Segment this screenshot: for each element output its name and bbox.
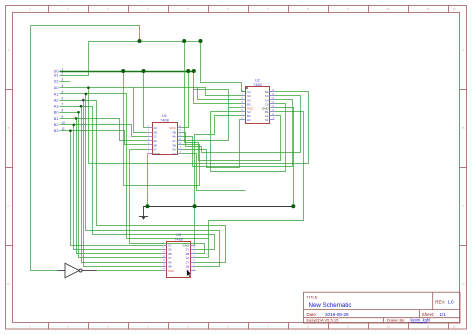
U2 right pin 10 (A1) <box>270 115 275 117</box>
U3 left pin 10 (3B) <box>163 253 167 255</box>
svg-text:Date:: Date: <box>307 312 318 317</box>
U1 left pin 3 (1Y) <box>148 136 153 138</box>
wire S0 tap to U1 VCC <box>182 72 189 128</box>
wire B3 row to U1 pin 2B <box>60 131 148 145</box>
wire U2 pin B1 wrap <box>209 112 304 239</box>
svg-text:kevin_kuhl: kevin_kuhl <box>411 318 431 323</box>
U3 left pin 8 (3Y) <box>163 245 167 247</box>
svg-text:2018-08-28: 2018-08-28 <box>325 312 349 317</box>
wire U1 pin 3A to U2 pin A2 <box>182 120 242 168</box>
U3 left pin 13 (4B) <box>163 266 167 268</box>
U1 left pin 7 (GND) <box>148 153 153 155</box>
U3 left pin 12 (4A) <box>163 262 167 264</box>
wire long left vertical to inverter input <box>31 26 58 271</box>
U3 right pin 3 (1Y) <box>191 262 196 264</box>
svg-text:S1: S1 <box>54 73 59 78</box>
svg-text:A: A <box>462 48 464 52</box>
U2 right pin 14 (C4) <box>270 99 275 101</box>
U1 left pin 4 (2A) <box>148 140 153 142</box>
svg-text:1.0: 1.0 <box>448 300 455 305</box>
junction B3 <box>69 129 72 132</box>
U2 left pin 1 (A4) <box>242 91 246 93</box>
wire S0 tap to U2 pin B3 <box>194 72 242 104</box>
U2 right pin 9 (S1) <box>270 119 275 121</box>
svg-text:REV:: REV: <box>435 300 445 305</box>
junction A3 <box>80 105 83 108</box>
junction GND bus left <box>146 204 150 208</box>
U1 left pin 6 (2Y) <box>148 149 153 151</box>
svg-text:A: A <box>7 48 9 52</box>
U3 left pin 9 (3A) <box>163 249 167 251</box>
wire B1 tap down to U3 pin 3B <box>77 119 163 254</box>
wire S0 bus (thick) <box>60 71 194 73</box>
wire B2 tap down to U3 pin 3A <box>74 125 163 250</box>
U2 left pin 7 (B2) <box>242 115 246 117</box>
U1 left pin 2 (1B) <box>148 132 153 134</box>
wire S2 stub <box>60 81 71 83</box>
svg-text:8: 8 <box>62 109 64 113</box>
wire horizontal bus y=41 <box>89 41 201 43</box>
junction B0 <box>77 111 80 114</box>
svg-text:S1: S1 <box>265 118 269 122</box>
U1 right pin 12 (4A) <box>178 136 182 138</box>
U2 left pin 6 (S2) <box>242 111 246 113</box>
wire U1 pin 4B to U2 pin S4 <box>182 96 301 153</box>
wire U1 pin 4Y loop to S0 tap <box>182 90 229 141</box>
svg-text:GND: GND <box>153 152 161 156</box>
junction bus41 / top loop <box>138 39 142 43</box>
wire bus to U3 GND <box>194 207 196 246</box>
U2 right pin 11 (B1) <box>270 111 275 113</box>
svg-text:12: 12 <box>452 325 456 329</box>
junction S0 tap3 <box>186 69 190 73</box>
svg-text:11: 11 <box>426 325 429 329</box>
wire A0 branch to U1 pin 1B <box>134 88 148 133</box>
mouse cursor <box>187 270 192 278</box>
svg-text:TITLE:: TITLE: <box>307 294 319 299</box>
junction bus41 tap1 <box>182 39 186 43</box>
svg-text:A0: A0 <box>54 85 60 90</box>
IC U2 7483 body <box>246 87 270 124</box>
wire A2 row wrap to U3 pin 1Y <box>60 101 226 263</box>
svg-text:EasyEDA V5.5.15: EasyEDA V5.5.15 <box>307 318 340 323</box>
U1 left pin 5 (2B) <box>148 144 153 146</box>
svg-text:11: 11 <box>426 7 429 11</box>
svg-text:A1: A1 <box>54 91 59 96</box>
svg-text:7483: 7483 <box>253 82 262 87</box>
wire B2 row to U1 pin 1Y <box>60 125 148 137</box>
svg-text:A3: A3 <box>54 104 59 109</box>
svg-text:7408: 7408 <box>160 118 169 123</box>
U3 right pin 2 (1B) <box>191 266 196 268</box>
wire S1 to bus y=41 <box>60 42 89 76</box>
junction GND bus mid <box>193 204 197 208</box>
svg-text:B1: B1 <box>54 116 59 121</box>
svg-text:B: B <box>7 126 9 130</box>
wire A0 row to U2 pin S3 <box>60 88 242 96</box>
U1 left pin 1 (1A) <box>148 127 153 129</box>
junction GND bus right <box>291 204 295 208</box>
wire A1 row wrap to U3 pin 2A <box>60 94 209 258</box>
junction S0 tap1 <box>121 69 125 73</box>
junction S0 tap4 <box>192 69 196 73</box>
wire U2 pin A3 feed <box>198 88 242 100</box>
svg-text:6: 6 <box>62 96 64 100</box>
U1 right pin 9 (3A) <box>178 149 182 151</box>
U2 left pin 2 (S3) <box>242 95 246 97</box>
junction A2 <box>82 99 85 102</box>
svg-text:1/1: 1/1 <box>440 312 447 317</box>
wire U1 pin 3Y <box>182 154 246 191</box>
U1 right pin 11 (4Y) <box>178 140 182 142</box>
wire A2 tap down to U3 pin 4B <box>84 101 163 267</box>
svg-text:3: 3 <box>62 78 64 82</box>
node marker at U2 top-left <box>246 87 248 89</box>
wire A3 tap down to U3 pin 4A <box>82 107 163 263</box>
svg-text:Drawn By:: Drawn By: <box>387 318 405 323</box>
title block <box>304 292 461 323</box>
wire U2 GND down to bus <box>275 108 294 207</box>
U2 left pin 5 (VCC) <box>242 107 246 109</box>
junction bus41 tap2 <box>199 39 203 43</box>
U2 left pin 4 (B3) <box>242 103 246 105</box>
wire A3 row wrap to U3 pin 2Y <box>60 107 215 250</box>
svg-text:A2: A2 <box>54 97 59 102</box>
svg-text:B0: B0 <box>54 110 60 115</box>
U1 right pin 14 (VCC) <box>178 127 182 129</box>
U3 left pin 14 (VCC) <box>163 270 167 272</box>
wire bus41 tap to U2 pin A1 <box>185 42 281 161</box>
svg-text:Sheet:: Sheet: <box>422 312 435 317</box>
wire top loop from left vertical to bus junction <box>31 26 140 42</box>
svg-text:VCC: VCC <box>168 269 175 273</box>
wire U2 pin B2 to GND bus <box>195 116 242 207</box>
junction B2 <box>73 124 76 127</box>
U2 right pin 15 (S4) <box>270 95 275 97</box>
U3 right pin 4 (2A) <box>191 257 196 259</box>
wire B3 tap down to U3 pin 3Y <box>71 131 163 246</box>
U1 right pin 10 (3B) <box>178 144 182 146</box>
svg-text:B2: B2 <box>54 122 59 127</box>
svg-text:New Schematic: New Schematic <box>309 302 352 309</box>
inverter gate G1 (NOT gate) <box>58 263 98 278</box>
svg-text:12: 12 <box>452 7 456 11</box>
U2 right pin 12 (GND) <box>270 107 275 109</box>
junction A1 <box>85 93 88 96</box>
wire B0 row <box>60 112 80 114</box>
wire bus41 tap to U2 pin A4 <box>201 42 246 92</box>
svg-text:10: 10 <box>386 7 390 11</box>
wire U1 pin 2Y wrap to U3 pin 2B <box>130 150 205 254</box>
U2 right pin 16 (B4) <box>270 91 275 93</box>
svg-text:10: 10 <box>386 325 390 329</box>
wire branch to U2 VCC <box>229 107 242 109</box>
wire inverter output to U3 VCC <box>98 270 163 272</box>
U3 right pin 5 (2B) <box>191 253 196 255</box>
junction A0 <box>87 86 90 89</box>
wire U1 GND down to bus <box>147 154 149 207</box>
svg-text:S2: S2 <box>54 79 59 84</box>
junction B1 <box>75 117 78 120</box>
wire S0 tap to U1 pin 1A <box>144 72 148 128</box>
junction S0 tap2 <box>142 69 146 73</box>
IC U1 7408 body <box>153 123 178 155</box>
IC U3 7486 body <box>167 242 191 278</box>
U2 left pin 3 (A3) <box>242 99 246 101</box>
svg-text:B3: B3 <box>54 128 59 133</box>
svg-text:3Y: 3Y <box>172 152 176 156</box>
U2 right pin 13 (C0) <box>270 103 275 105</box>
wire A1 tap wrap to U3 pin 1B <box>86 94 220 267</box>
wire U2 pin C0 wrap to U2 pin S2 <box>211 104 286 172</box>
svg-text:A2: A2 <box>247 118 251 122</box>
U3 right pin 7 (GND) <box>191 245 196 247</box>
U3 right pin 1 (1A) <box>191 270 196 272</box>
wire B0 tap down to U3 pin 4Y <box>79 113 163 258</box>
wire S0 tap to U1 pin 2B <box>124 72 200 186</box>
U1 right pin 13 (4B) <box>178 132 182 134</box>
wire GND bus (black) <box>148 206 294 208</box>
svg-text:B: B <box>462 126 464 130</box>
wire U1 pin 4A to U2 pin C4 <box>182 100 293 167</box>
U3 left pin 11 (4Y) <box>163 257 167 259</box>
ground symbol <box>139 207 148 220</box>
svg-text:7: 7 <box>62 103 64 107</box>
U1 right pin 8 (3Y) <box>178 153 182 155</box>
wire B1 row to U1 pin 2A <box>60 119 148 141</box>
U3 right pin 6 (2Y) <box>191 249 196 251</box>
U2 left pin 8 (A2) <box>242 119 246 121</box>
wire A0 tap to U2 pin B4 <box>89 88 309 164</box>
